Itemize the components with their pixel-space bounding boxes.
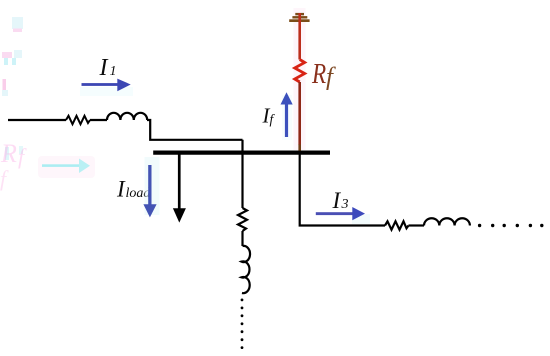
inductor load branch (vertical) bbox=[242, 246, 251, 293]
resistor right branch bbox=[385, 221, 409, 229]
dotted continuation load bbox=[241, 299, 244, 350]
wire bbox=[241, 231, 243, 246]
wire step down to bus bbox=[147, 120, 243, 140]
wire fault lower (dark red to bus) bbox=[298, 82, 301, 145]
inductor left feeder bbox=[107, 113, 147, 120]
arrow load current (black, down) bbox=[173, 154, 186, 223]
wire bbox=[90, 119, 107, 121]
ghost artifact cyan box top-left bbox=[12, 17, 23, 32]
wire right branch from bus bbox=[300, 154, 385, 226]
resistor load branch bbox=[238, 208, 247, 231]
svg-text:1: 1 bbox=[110, 64, 117, 79]
ghost arrow (faded cyan, pink halo) bbox=[38, 156, 95, 178]
dotted continuation right bbox=[478, 224, 544, 227]
wire left feeder bbox=[8, 119, 66, 121]
svg-text:3: 3 bbox=[341, 197, 349, 212]
ghost label Rf cyan flecks bbox=[5, 147, 9, 160]
svg-text:I: I bbox=[99, 55, 109, 81]
svg-text:f: f bbox=[270, 112, 276, 127]
svg-text:f: f bbox=[0, 166, 9, 191]
ghost artifact cluster mid-left bbox=[2, 50, 22, 65]
resistor left feeder bbox=[66, 116, 90, 124]
svg-text:I: I bbox=[332, 188, 342, 213]
wire fault upper (red) bbox=[298, 13, 301, 60]
ghost artifact pink bar left bbox=[2, 79, 8, 96]
svg-text:f: f bbox=[326, 64, 336, 91]
resistor Rf (red zigzag) bbox=[295, 60, 305, 83]
wire bbox=[409, 224, 425, 226]
arrow I1 (blue, right) bbox=[80, 79, 133, 96]
svg-text:I: I bbox=[116, 176, 126, 201]
svg-text:R: R bbox=[311, 58, 326, 90]
wire load tap down through bus bbox=[241, 140, 243, 208]
halo along fault wire bbox=[294, 8, 306, 150]
arrow I3 (blue, right) bbox=[316, 207, 370, 224]
arrow Iload (blue, down) bbox=[143, 157, 159, 217]
ground (fault) bbox=[289, 13, 309, 22]
svg-text:R: R bbox=[0, 139, 17, 168]
svg-text:f: f bbox=[18, 144, 27, 169]
wire fault at bus (olive transition) bbox=[298, 145, 301, 151]
inductor right branch bbox=[424, 218, 470, 225]
arrow If (blue, up) bbox=[281, 92, 293, 140]
bus bar bbox=[153, 151, 330, 155]
